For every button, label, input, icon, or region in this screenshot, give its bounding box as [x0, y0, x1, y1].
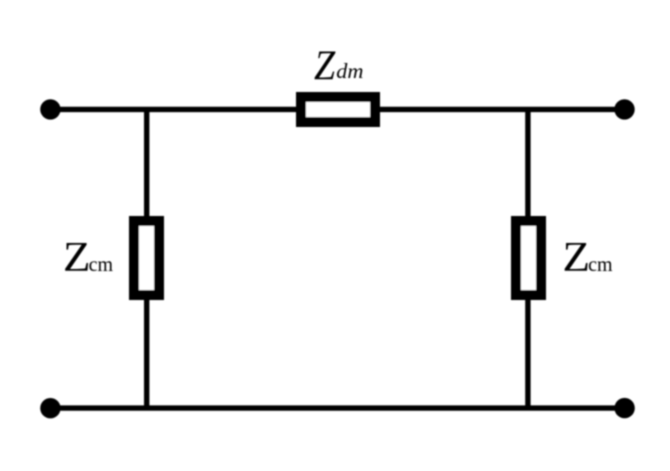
impedance Zcm right (shunt box): [516, 221, 541, 295]
wire top rail: [50, 107, 624, 112]
svg-text:cm: cm: [89, 254, 113, 277]
svg-text:dm: dm: [336, 60, 363, 83]
wire left branch: [144, 109, 149, 408]
wire right branch: [525, 109, 530, 408]
terminal top-left: [40, 99, 60, 119]
svg-text:Z: Z: [63, 234, 91, 280]
terminal bottom-left: [40, 398, 60, 418]
svg-text:Z: Z: [563, 234, 591, 280]
wire bottom rail: [50, 405, 624, 410]
impedance Zdm (series box): [301, 97, 375, 122]
impedance Zcm left (shunt box): [134, 221, 159, 295]
svg-text:cm: cm: [588, 254, 612, 277]
terminal bottom-right: [614, 398, 634, 418]
terminal top-right: [614, 99, 634, 119]
svg-text:Z: Z: [314, 42, 336, 89]
